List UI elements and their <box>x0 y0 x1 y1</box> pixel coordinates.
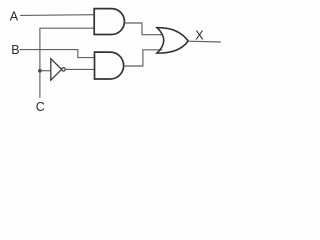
svg-text:X: X <box>195 29 204 43</box>
wire inverter output to AND U2 <box>65 68 94 70</box>
wire C vertical and branch to AND U1 <box>40 28 95 98</box>
wire A to AND U1 <box>20 14 94 17</box>
inverter bubble <box>62 68 66 72</box>
junction node C to inverter <box>38 69 42 73</box>
svg-text:A: A <box>10 10 19 24</box>
wire U2 output to OR <box>124 50 163 66</box>
inverter (NOT gate) <box>51 59 62 80</box>
svg-text:C: C <box>36 100 45 114</box>
wire B to AND U2 <box>19 50 94 58</box>
AND gate U1 <box>94 9 124 35</box>
OR gate U3 <box>157 28 188 53</box>
wire U1 output to OR <box>125 23 162 35</box>
svg-text:B: B <box>11 43 19 57</box>
wire OR output to X <box>188 40 221 43</box>
AND gate U2 <box>95 52 124 79</box>
wire junction to inverter input <box>40 70 51 72</box>
